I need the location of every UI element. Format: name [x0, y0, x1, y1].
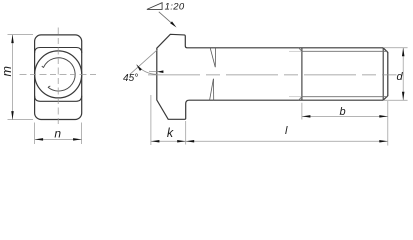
thread runout top	[299, 48, 302, 52]
dimension n extension lines	[34, 123, 36, 145]
head outline square S1	[35, 35, 82, 120]
dimension k extension line right	[185, 121, 187, 145]
shank circle	[35, 51, 82, 98]
arrow k right	[177, 140, 186, 143]
arrow l left	[186, 140, 195, 143]
svg-text:n: n	[54, 127, 61, 141]
horizontal centerline left view	[20, 73, 100, 75]
full thread boundary line	[301, 48, 303, 100]
thread root line top	[302, 50, 388, 52]
arrow b left	[302, 115, 311, 118]
arrow d bottom	[402, 92, 405, 101]
arrow l right	[379, 140, 388, 143]
horizontal centerline side view	[148, 74, 397, 76]
svg-text:m: m	[0, 66, 14, 76]
45 deg chamfer extension line	[130, 49, 158, 74]
arrow m top	[11, 35, 14, 44]
arrow m bottom	[11, 111, 14, 120]
dimension m extension lines	[8, 34, 34, 36]
taper leader arrow	[170, 21, 176, 27]
arrow k left	[151, 140, 160, 143]
chamfer boundary bottom	[35, 96, 82, 102]
45 deg dimension arc	[137, 65, 157, 75]
bolt outline	[157, 34, 388, 119]
dimension m line	[12, 35, 14, 120]
arrow n right	[73, 138, 82, 141]
svg-text:45°: 45°	[123, 73, 138, 84]
arrow n left	[35, 138, 44, 141]
dimension b line	[302, 115, 388, 117]
dimension l/b right extension line	[387, 101, 389, 146]
dimension d extension line bottom	[383, 99, 407, 101]
thread root line bottom	[302, 96, 388, 98]
chamfer boundary top	[35, 48, 82, 54]
arrow b right	[379, 115, 388, 118]
thread runout bottom	[299, 97, 302, 101]
dimension k extension line left	[150, 95, 152, 145]
arrow d top	[402, 48, 405, 57]
svg-text:k: k	[167, 126, 174, 140]
45 deg arc arrow (chamfer side)	[137, 65, 142, 71]
dimension b extension line left	[301, 103, 303, 120]
svg-text:1:20: 1:20	[165, 1, 185, 12]
square neck corner wedge top	[210, 48, 215, 67]
taper leader line	[159, 12, 174, 25]
thread root stub left bottom	[289, 96, 302, 98]
thread root stub left top	[289, 50, 302, 52]
vertical centerline left view	[57, 28, 59, 126]
thread chamfer circle line (end)	[382, 48, 384, 100]
fillet circle (incomplete, with runout hook)	[42, 58, 75, 91]
svg-text:b: b	[340, 106, 346, 118]
square neck corner wedge bottom	[210, 79, 214, 100]
dimension l line	[186, 140, 388, 142]
45 deg arrow at face	[157, 70, 164, 73]
dimension d extension line top	[383, 47, 407, 49]
dimension k line	[151, 140, 186, 142]
45 deg arrow tail line	[149, 70, 157, 73]
svg-text:d: d	[396, 71, 403, 83]
taper symbol triangle	[147, 3, 162, 10]
dimension n line	[35, 138, 82, 140]
dimension d line	[402, 48, 404, 100]
